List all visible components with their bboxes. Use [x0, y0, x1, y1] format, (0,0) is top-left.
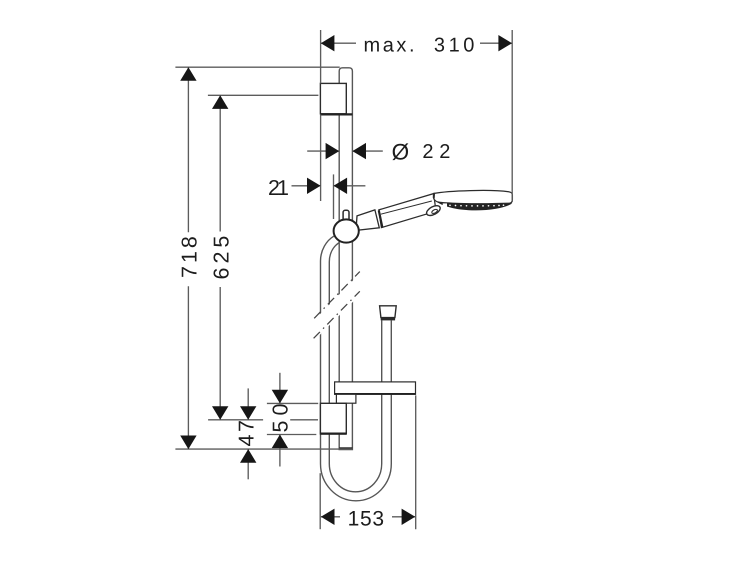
arrow 718 top (up) — [180, 67, 196, 81]
arrow 47 bottom (up) — [240, 449, 256, 463]
svg-text:47: 47 — [235, 418, 259, 447]
arrow max310 left — [321, 35, 335, 51]
shelf bottom edge — [335, 393, 416, 395]
dim line 718 (vertical x=188.4) — [187, 67, 189, 232]
soap dish shelf — [335, 382, 416, 394]
holder pin — [343, 210, 349, 222]
svg-text:21: 21 — [268, 176, 291, 200]
top bracket lower flange — [320, 113, 352, 115]
ext line 153 right (x=415.7) — [415, 395, 417, 529]
svg-text:718: 718 — [177, 233, 201, 278]
svg-text:Ø: Ø — [392, 140, 412, 165]
arrow 21 right (points left) — [334, 178, 348, 194]
dim line Ø22 — [307, 150, 339, 152]
arrow d22 right (points left) — [352, 143, 366, 159]
break band (white cut across rail and hose) — [311, 270, 363, 344]
break line lower (dash-dot) — [314, 291, 360, 338]
ext line 50 top (y=403.4) — [267, 402, 318, 404]
arrowheads — [180, 35, 512, 525]
arrow 718 bottom (down) — [180, 436, 196, 450]
rail bar — [339, 68, 352, 450]
dim line 50 tails — [279, 373, 281, 404]
dim line max310 — [321, 42, 356, 44]
shower head spray face (dark) — [437, 202, 512, 210]
spray nozzle square — [443, 203, 447, 207]
shaft inner highlight line — [381, 201, 432, 214]
shower head body — [433, 190, 512, 203]
head-handle notch tick — [433, 193, 435, 199]
spray nozzle dots — [449, 204, 504, 206]
ext line 153 left (x=320.2) — [319, 473, 321, 529]
ext line max310 right (x=512.2) — [511, 30, 513, 201]
holder knob — [334, 219, 359, 242]
hand shower grip cone — [356, 210, 379, 231]
rail bottom end cap — [339, 447, 352, 449]
hand shower shaft — [379, 194, 436, 228]
arrow 153 left (points left) — [321, 509, 335, 525]
ext line 625 top (y=95.3) — [208, 94, 319, 96]
ext line top-left (718 top, y=67.2) — [175, 66, 339, 68]
top wall bracket — [320, 83, 346, 113]
dim line 625 (vertical x=220.2) — [219, 95, 221, 231]
dim line 21 — [292, 185, 321, 187]
hose conical nut — [380, 306, 397, 318]
svg-text:310: 310 — [434, 35, 477, 57]
arrow 625 bottom (down) — [212, 406, 228, 420]
svg-text:153: 153 — [348, 507, 387, 530]
svg-text:max.: max. — [364, 35, 417, 57]
arrow 625 top (up) — [212, 95, 228, 109]
arrow 153 right (points right) — [402, 509, 416, 525]
svg-text:22: 22 — [422, 141, 452, 163]
hose inner edge — [329, 243, 381, 492]
break line upper (dash-dot) — [314, 272, 360, 319]
arrow 21 left (points right) — [307, 178, 321, 194]
ext line 50 bottom (y=434.5) — [267, 434, 316, 436]
ext line bottom (718 bottom / 47 bottom, y=449.1) — [175, 448, 352, 450]
svg-text:625: 625 — [209, 232, 233, 280]
arrow 50 top (down) — [272, 390, 288, 404]
swivel joint inner hole — [431, 209, 438, 215]
arrow d22 left (points right) — [326, 143, 340, 159]
swivel joint ellipse — [425, 204, 442, 218]
arrow 50 bottom (up) — [272, 435, 288, 449]
bottom bracket lower flange — [320, 433, 346, 435]
arrow max310 right — [498, 35, 512, 51]
arrow 47 top (down) — [240, 406, 256, 420]
bottom wall bracket — [320, 403, 346, 434]
hose outer edge — [321, 236, 392, 501]
shelf slider block — [336, 394, 356, 403]
grip band ring — [379, 211, 383, 228]
ext line max310 left / 21 left (x=320.6) — [320, 30, 322, 83]
dim line 47 tails — [247, 388, 249, 419]
nut collar band — [381, 318, 395, 321]
dim line 153 — [321, 516, 340, 518]
svg-text:50: 50 — [269, 399, 293, 433]
ext line 21 right (x=333.5) — [333, 174, 335, 219]
ext line 625 bottom / 47 top (y=419.8) — [208, 419, 263, 421]
